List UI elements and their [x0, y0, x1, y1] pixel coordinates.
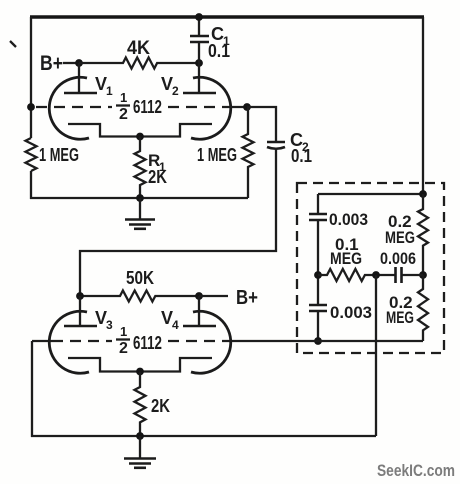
wire: V4 plate lead [198, 296, 200, 326]
wire: left vertical from top rail to V1 grid and 1 MEG [30, 17, 32, 138]
node junction V1 grid / left rail [27, 103, 35, 111]
ground (upper) [139, 198, 141, 219]
plate bar V3 [64, 325, 97, 328]
svg-text:6112: 6112 [133, 97, 162, 117]
node junction left branch mid [314, 271, 322, 279]
resistor 1 MEG (right grid resistor) [243, 107, 254, 198]
wire: left vertical of lower stage [31, 341, 33, 437]
plate bar V2 [183, 92, 216, 95]
capacitor 0.003 upper lead [317, 194, 319, 214]
scan artifact tick [10, 41, 16, 47]
capacitor C1 bottom lead [198, 42, 200, 63]
resistor 0.2 MEG upper [418, 194, 428, 275]
node junction V4 plate / 50K / B+ [195, 292, 203, 300]
wire: 0.006 to right branch [402, 274, 423, 276]
wire: V1 grid dashed [36, 106, 112, 108]
svg-text:0.003: 0.003 [330, 303, 372, 322]
wire: V4 grid out to box [229, 340, 318, 342]
wire: V2 plate lead [198, 63, 200, 93]
node junction center of network [372, 271, 380, 279]
wire: top feedback rail [30, 15, 424, 18]
node junction R1 / ground rail [136, 194, 144, 202]
svg-text:6112: 6112 [133, 333, 162, 353]
wire: left branch middle [317, 220, 319, 305]
svg-text:50K: 50K [126, 268, 154, 288]
op-amp: plate bar V1 [64, 92, 97, 95]
wire: V3 grid dashed [52, 340, 112, 342]
wire: B+ stub to plate node [63, 62, 79, 64]
svg-text:4K: 4K [127, 38, 150, 59]
resistor 0.2 MEG lower [418, 275, 428, 341]
node junction V1 plate / B+ / 4K [75, 59, 83, 67]
wire: right vertical from top rail into network box [422, 17, 424, 194]
node junction V2 plate / 4K / C1 [195, 59, 203, 67]
node junction V3 plate / 50K / coupling [76, 292, 84, 300]
svg-text:SeekIC.com: SeekIC.com [377, 461, 455, 480]
resistor 0.1 MEG horizontal [318, 269, 395, 281]
wire: left branch bottom lead [317, 311, 319, 341]
svg-text:MEG: MEG [386, 308, 414, 327]
node junction right branch mid [419, 271, 427, 279]
wire: B+ stub lower [199, 295, 228, 297]
node junction C1 / top rail [195, 13, 203, 21]
resistor R1 2K cathode [135, 137, 146, 200]
svg-text:0.003: 0.003 [329, 210, 368, 229]
node junction cathodes / R1 [136, 133, 144, 141]
wire: V3 plate lead [79, 296, 81, 326]
capacitor 0.006 plates [396, 267, 402, 283]
wire: V3 grid to left wire [32, 340, 52, 342]
svg-text:MEG: MEG [385, 228, 415, 247]
tube envelope lower right arc [191, 311, 231, 373]
wire: V4 grid dashed [168, 340, 229, 342]
tube envelope upper right arc [191, 77, 231, 139]
node junction 2K / bottom rail [136, 432, 144, 440]
wire: V2 grid out to node [229, 106, 247, 108]
node junction V2 grid / 1MEG / C2 [243, 103, 251, 111]
svg-text:0.1: 0.1 [291, 146, 312, 166]
cathodes V1 V2 with common tail [68, 124, 212, 137]
wire: V2 grid dashed [168, 106, 229, 108]
node junction left branch / bottom wire [314, 337, 322, 345]
wire: C2 to V3 plate coupling [80, 148, 276, 296]
svg-text:2K: 2K [148, 167, 167, 187]
wire: C2 branch from V2 grid node [247, 107, 276, 142]
resistor 2K cathode lower [135, 372, 146, 437]
tube envelope upper left arc [49, 77, 89, 139]
resistor 1 MEG (left grid resistor) [26, 138, 37, 171]
wire: box inner bottom [318, 340, 423, 342]
resistor 50K plate load [80, 291, 199, 302]
tube envelope lower left arc [49, 311, 89, 373]
wire: bottom rail [31, 435, 376, 437]
capacitor 0.003 upper plates [309, 214, 327, 220]
svg-text:1 MEG: 1 MEG [39, 145, 79, 165]
svg-text:B+: B+ [40, 52, 63, 75]
resistor 4K plate load [79, 58, 199, 69]
capacitor C1 top lead [198, 17, 200, 36]
svg-text:4: 4 [172, 318, 179, 332]
svg-text:B+: B+ [236, 287, 258, 309]
svg-text:1: 1 [120, 90, 127, 105]
plate bar V4 [183, 325, 216, 328]
svg-text:1: 1 [120, 324, 127, 339]
wire: center node down to bottom rail [375, 275, 377, 436]
node junction cathodes lower / 2K [136, 368, 144, 376]
dashed network box [297, 183, 444, 353]
wire: ground rail of upper stage [30, 197, 248, 199]
node junction feed / box top [419, 190, 427, 198]
svg-text:2K: 2K [151, 396, 170, 416]
capacitor C1 plates [190, 36, 209, 42]
svg-text:1 MEG: 1 MEG [197, 145, 237, 165]
capacitor 0.003 lower plates [309, 305, 327, 311]
wire: left vertical below 1 MEG [30, 171, 32, 199]
svg-text:0.1: 0.1 [208, 41, 230, 61]
cathodes V3 V4 with common tail [68, 358, 212, 372]
wire: box inner top [318, 193, 423, 195]
svg-text:0.006: 0.006 [380, 249, 416, 268]
wire: V1 plate lead [78, 63, 80, 93]
svg-text:2: 2 [172, 84, 179, 98]
svg-text:MEG: MEG [330, 249, 362, 268]
svg-text:3: 3 [106, 318, 113, 332]
capacitor C2 plates [267, 141, 285, 144]
svg-text:2: 2 [119, 106, 128, 123]
svg-text:1: 1 [106, 84, 113, 98]
ground (lower) [139, 436, 141, 458]
svg-text:2: 2 [119, 340, 128, 357]
